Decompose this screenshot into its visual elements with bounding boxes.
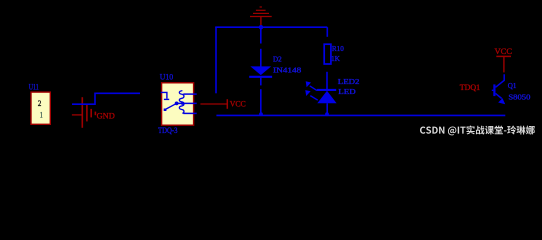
svg-text:IN4148: IN4148 <box>273 66 302 75</box>
wire (top rail) <box>215 26 327 28</box>
ground GND (power symbol on U11 pin 1) <box>72 97 96 128</box>
wire (bottom rail) <box>216 114 505 116</box>
svg-text:Q1: Q1 <box>508 81 517 90</box>
wire (right drop) <box>326 27 328 37</box>
svg-text:VCC: VCC <box>495 46 513 56</box>
LED emission arrows <box>310 86 318 100</box>
power VCC (middle) <box>200 99 227 109</box>
relay fixed contact (bracket) <box>161 92 170 99</box>
relay U10 <box>158 71 194 135</box>
svg-text:U11: U11 <box>29 83 39 92</box>
svg-text:LED2: LED2 <box>338 77 360 86</box>
svg-text:1K: 1K <box>331 54 341 63</box>
watermark CSDN <box>420 126 535 136</box>
svg-text:R10: R10 <box>332 44 344 53</box>
connector U11 <box>29 83 51 125</box>
svg-text:S8050: S8050 <box>508 92 530 101</box>
power VCC (right) <box>495 46 513 72</box>
node junction (D2 / bottom rail) <box>259 112 263 116</box>
node junction (LED / bottom rail) <box>325 112 329 116</box>
svg-text:2: 2 <box>38 99 42 108</box>
svg-text:U10: U10 <box>160 71 174 81</box>
relay coil <box>179 91 184 114</box>
wire (U11 pin 2 step wire) <box>72 93 140 104</box>
earth ground (top) <box>250 7 272 28</box>
node junction (top rail / D2) <box>259 25 263 29</box>
relay taps <box>183 93 196 95</box>
svg-text:GND: GND <box>97 110 115 120</box>
diode D2 IN4148 <box>249 27 301 115</box>
resistor R10 1K <box>324 44 344 64</box>
wire (left drop) <box>215 27 217 93</box>
svg-text:LED: LED <box>338 87 356 96</box>
svg-text:1: 1 <box>40 111 43 120</box>
LED <box>305 77 359 115</box>
svg-text:TDQ-3: TDQ-3 <box>158 125 178 135</box>
transistor Q1 S8050 <box>492 74 531 104</box>
svg-text:D2: D2 <box>273 54 282 63</box>
relay moving arm <box>165 103 176 109</box>
svg-text:TDQ1: TDQ1 <box>460 83 480 92</box>
wire (R10 to LED) <box>326 72 328 90</box>
svg-text:VCC: VCC <box>230 99 246 109</box>
